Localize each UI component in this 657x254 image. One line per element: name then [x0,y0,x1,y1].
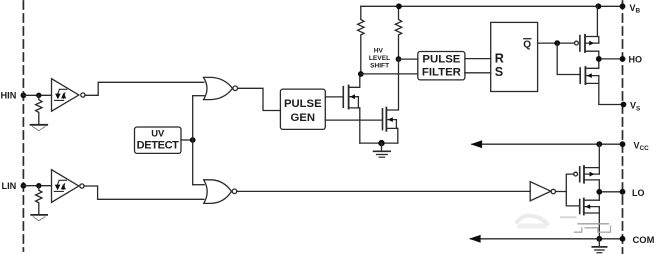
node VCC / Q7 junction [596,141,602,147]
node HIN terminal [21,92,27,98]
svg-text:PULSE: PULSE [284,98,322,110]
node LO terminal [620,189,626,195]
wire U2 output to NOR2 bottom input [84,186,204,199]
wire inverter output to gate bus [556,191,567,193]
arrow COM (points left) [469,235,481,243]
resistor R2 (LIN pulldown) [36,186,42,215]
wire pulse gen top output to Q1 gate [325,96,343,98]
wire Q5 source up to VB rail [596,6,598,36]
transistor Q5 (HO high-side PMOS) [575,35,599,52]
inverter U5 (LO driver) [530,182,555,201]
node Qbar junction [554,40,560,46]
wire Q8 drain up to LO node [598,192,600,200]
wire R3 node to pulse filter bottom input [361,73,418,75]
pulse gen box [280,89,325,129]
svg-text:VB: VB [630,3,641,15]
wire VCC rail with arrow [472,143,623,145]
arrow VCC (points left) [471,140,483,148]
node R4 bottom junction [396,56,402,62]
node HIN junction [36,93,41,98]
transistor Q8 (LO low-side NMOS) [580,199,600,215]
node LIN terminal [21,183,27,189]
chip boundary dashed line (right) [622,1,624,254]
ground (HIN resistor) [31,125,48,131]
transistor Q6 (HO low-side NMOS) [580,67,599,84]
svg-text:FILTER: FILTER [422,67,461,79]
NOR gate NOR1 (HIN channel) [204,77,238,99]
transistor Q1 (level-shift NMOS, HO set) [343,86,360,109]
node LIN junction [36,183,41,188]
wire Q2 source down to common rail [397,128,399,143]
node COM terminal [620,236,626,242]
wire HO output [599,58,623,60]
node top rail / Q5 source [596,3,602,9]
node VCC terminal [620,141,626,147]
node LO junction [596,189,602,195]
resistor R3 (level shift left) [358,6,364,74]
wire Qbar output [538,42,575,44]
wire Qbar node down to Q6 gate [557,43,580,74]
wire Q6 drain up to HO node [598,59,600,68]
UV detect box [135,127,182,153]
transistor Q7 (LO high-side PMOS) [574,166,600,183]
svg-text:VS: VS [630,101,641,113]
node VB terminal [620,3,626,9]
svg-text:LEVEL: LEVEL [369,55,390,62]
wire LO gate bus [566,174,579,206]
svg-text:VCC: VCC [634,140,650,152]
wire Q1 source down to common rail [359,108,361,143]
svg-text:HV: HV [374,48,384,55]
pulse filter box [418,52,465,80]
wire pulse filter to latch R [465,58,491,60]
wire HIN input [23,94,51,96]
wire R4 node to pulse filter top input [399,58,418,60]
wire U1 output to NOR1 top input [85,82,204,95]
svg-text:GEN: GEN [291,112,315,124]
label HV LEVEL SHIFT [369,48,390,70]
wire UV to NOR1 lower input [193,95,205,97]
node HO terminal [620,56,626,62]
svg-text:UV: UV [151,128,165,139]
resistor R4 (level shift right) [395,6,401,59]
wire pulse gen bottom output to Q2 gate [325,119,382,121]
svg-text:R: R [495,52,504,66]
schmitt trigger buffer U2 (LIN) [52,170,85,203]
node UV junction [190,137,196,143]
ground (LIN resistor) [31,215,47,221]
svg-text:COM: COM [633,234,655,245]
resistor R1 (HIN pulldown) [36,95,42,124]
node R3 bottom junction [358,71,364,77]
svg-text:LO: LO [632,188,645,198]
wire UV detect output [181,139,193,141]
node level-shift ground junction [378,140,384,146]
svg-text:Q: Q [523,39,531,50]
latch U4 (RS flip-flop) [491,22,538,91]
svg-text:HIN: HIN [1,91,17,101]
node top rail / R4 [396,3,402,9]
wire VB top rail [361,5,623,7]
watermark (faint site logo) [517,216,611,233]
wire Q8 source down to COM [598,213,600,239]
chip boundary dashed line (left) [22,1,24,251]
wire pulse filter to latch S [465,72,491,74]
node VS terminal [621,102,627,108]
wire UV bus vertical [192,96,194,185]
svg-text:SHIFT: SHIFT [370,63,389,70]
wire NOR2 output to LO inverter (long) [237,190,530,192]
node HO junction [596,56,602,62]
transistor Q2 (level-shift NMOS, HO reset) [383,108,399,131]
wire Q5 drain down to HO node [598,51,600,59]
wire VCC down to Q7 source [598,144,600,167]
wire UV to NOR2 upper input [193,184,205,186]
wire level-shift common rail [360,142,398,144]
node COM / ground junction [596,236,602,242]
svg-text:PULSE: PULSE [422,54,460,66]
wire Q6 source down to VS [599,83,624,104]
svg-text:S: S [495,65,503,79]
ground (COM) [592,239,606,253]
ground (level shift) [374,143,391,157]
wire LIN input [23,185,51,187]
svg-text:HO: HO [629,55,643,65]
NOR gate NOR2 (LIN channel) [204,180,237,204]
wire R4 node down to Q2 drain [398,59,400,110]
wire COM rail with arrow [471,238,623,240]
wire LO output [599,191,622,193]
schmitt trigger buffer U1 (HIN) [52,79,86,112]
wire NOR1 output to pulse gen [238,88,281,110]
svg-text:LIN: LIN [2,181,17,191]
svg-text:DETECT: DETECT [137,139,180,151]
wire Q1 drain up to R3 node [359,74,361,87]
wire Q7 drain down to LO node [598,180,600,192]
